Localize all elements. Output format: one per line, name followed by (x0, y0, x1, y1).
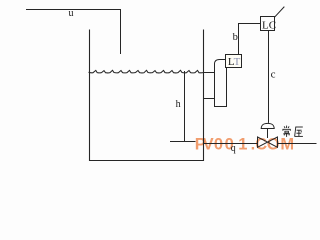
wire upper tap tank to chamber (204, 72, 215, 74)
wire lower tap tank to chamber (204, 98, 215, 100)
svg-text:u: u (69, 8, 74, 19)
level sensor chamber (215, 60, 227, 107)
wire outflow pipe right of valve (278, 143, 317, 145)
dimension line h (184, 72, 186, 142)
svg-text:q: q (231, 143, 236, 154)
svg-text:c: c (271, 68, 276, 80)
svg-text:h: h (176, 99, 181, 110)
wire outflow pipe left of valve (204, 143, 258, 145)
controller LC box (261, 17, 277, 32)
valve actuator diaphragm dome (261, 123, 274, 128)
label 压 (ya) (295, 127, 303, 137)
wire c from LC down to valve (268, 31, 270, 122)
wire b from LT up to LC (239, 24, 261, 55)
label 常 (chang) (283, 126, 290, 137)
svg-text:b: b (233, 32, 238, 43)
valve actuator stem (267, 129, 269, 138)
transmitter LT box (226, 55, 242, 69)
svg-text:LT: LT (228, 56, 241, 68)
svg-text:PV001.COM: PV001.COM (195, 135, 294, 153)
control valve body bowtie (258, 137, 278, 147)
tank (90, 30, 204, 161)
water surface wavy line (89, 70, 204, 73)
wire inflow pipe u (27, 10, 121, 54)
svg-text:LC: LC (262, 20, 276, 32)
dimension tick (171, 141, 196, 143)
setpoint arrow on LC (275, 7, 284, 17)
